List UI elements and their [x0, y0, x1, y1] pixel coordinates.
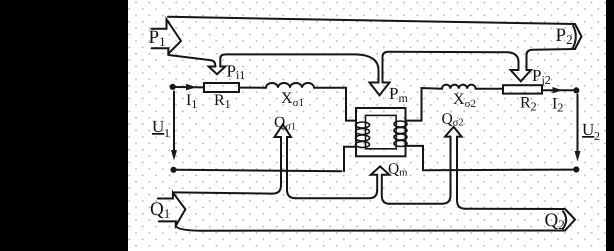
- svg-text:U: U: [582, 120, 594, 139]
- loss arrow Pm right side: [383, 52, 509, 83]
- current arrow I2: [553, 87, 563, 93]
- arrow P2 head: [575, 24, 582, 49]
- resistor R1: [204, 83, 239, 92]
- wire Xs1 to transformer: [314, 88, 356, 121]
- loss arrow Pi1 head: [209, 67, 226, 75]
- node bottom-right: [573, 166, 579, 172]
- reactive arrow Qs1 head: [275, 125, 292, 138]
- transformer outer core: [356, 108, 406, 156]
- black margin block left: [0, 0, 128, 251]
- transformer inner core: [366, 115, 397, 148]
- inductor Xs2: [442, 85, 476, 89]
- loss arrow Pi1 right side: [220, 54, 356, 66]
- svg-text:U: U: [152, 117, 164, 136]
- resistor R2: [503, 85, 542, 93]
- reactive arrow Qs1 right side: [287, 137, 296, 198]
- reactive arrow Qs1 left side: [280, 137, 282, 185]
- voltage arrow U1: [173, 92, 175, 152]
- Q-band bottom edge: [176, 226, 565, 231]
- reactive arrow Qm right side: [382, 175, 390, 204]
- loss arrow Pj2 left side: [509, 52, 519, 70]
- loss arrow Pm head: [370, 83, 390, 96]
- P-band bottom edge segment 1: [169, 55, 216, 67]
- svg-text:2: 2: [594, 129, 600, 143]
- reactive arrow Qm left side: [376, 175, 378, 190]
- wire I2: [542, 89, 573, 91]
- reactive arrow Qs2 left side: [450, 137, 452, 196]
- wire R1 to Xs1: [239, 87, 266, 89]
- voltage arrow U2: [577, 95, 579, 153]
- loss arrow Pj2 right side: [527, 49, 576, 70]
- inductor Xs1: [266, 83, 314, 88]
- Q-band top edge segment B: [296, 190, 378, 198]
- loss arrow Pj2 head: [511, 70, 532, 81]
- current arrow I1: [186, 84, 197, 91]
- arrow Q1: [158, 193, 186, 226]
- transformer right winding: [394, 121, 407, 147]
- transformer bottom-right connection: [406, 146, 424, 170]
- black margin strip right: [606, 0, 614, 251]
- bottom wire left: [177, 170, 342, 172]
- P-band top edge: [168, 17, 575, 24]
- transformer left winding: [356, 122, 370, 148]
- node bottom-left: [170, 167, 176, 173]
- bottom wire right: [423, 169, 573, 172]
- loss arrow Pm left side: [357, 54, 379, 82]
- dotted paper background: [128, 0, 606, 251]
- Q-band top edge segment D: [465, 208, 565, 210]
- reactive arrow Qm head: [371, 166, 390, 174]
- reactive arrow Qs2 right side: [457, 137, 465, 209]
- svg-text:1: 1: [164, 126, 170, 140]
- node top-right: [573, 87, 579, 93]
- wire Xs2 to R2: [476, 88, 503, 90]
- Q-band top edge segment C: [390, 195, 451, 204]
- arrow P1: [152, 19, 182, 53]
- transformer bottom-left connection: [344, 147, 356, 172]
- Q-band top edge segment A: [175, 185, 282, 194]
- arrow Q2 head: [565, 209, 575, 231]
- node top-left: [170, 84, 176, 90]
- wire transformer to Xs2: [406, 88, 443, 121]
- wire I1: [176, 86, 204, 88]
- reactive arrow Qs2 head: [445, 127, 462, 137]
